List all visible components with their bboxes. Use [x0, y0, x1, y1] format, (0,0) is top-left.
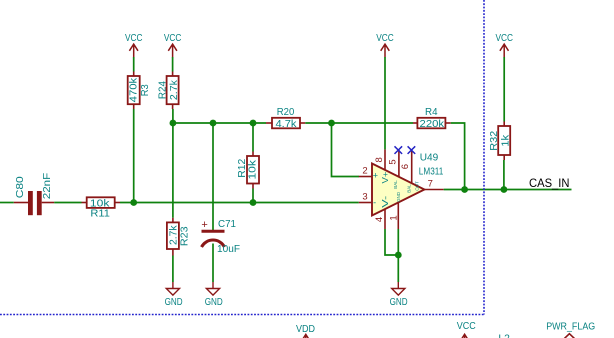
- svg-text:10k: 10k: [247, 159, 259, 179]
- resistor R11 10k (horizontal): [82, 197, 121, 219]
- resistor R23 2.7k (vertical): [167, 218, 191, 256]
- ground symbol under R23: [165, 282, 183, 308]
- svg-text:CAS_IN: CAS_IN: [529, 178, 570, 190]
- svg-text:V-: V-: [380, 196, 390, 208]
- svg-text:R11: R11: [90, 208, 110, 220]
- junction R4 feedback: [461, 186, 468, 193]
- svg-text:GND: GND: [390, 296, 408, 308]
- wire bus drop to R23: [172, 123, 174, 218]
- pin 3 (- input): [359, 192, 372, 203]
- resistor R4 220k (horizontal): [413, 106, 451, 130]
- power symbol VCC (above pin 8): [376, 32, 394, 57]
- wire C80 to R11: [54, 202, 81, 204]
- wire pin 1 to GND: [397, 229, 399, 282]
- resistor R12 10k (vertical): [236, 152, 259, 189]
- wire bus right segment: [305, 122, 413, 124]
- power flag PWR_FLAG (bottom): [546, 321, 595, 338]
- wire input left edge: [0, 202, 14, 204]
- pin 8 (V+): [374, 149, 385, 170]
- svg-text:8: 8: [374, 157, 385, 162]
- svg-text:PWR_FLAG: PWR_FLAG: [546, 321, 595, 333]
- pin 5 (BAL): [387, 150, 399, 177]
- resistor R3 470k (vertical): [127, 72, 150, 110]
- wire R24 to bus: [172, 109, 174, 123]
- resistor R24 2.7k (vertical): [157, 72, 180, 110]
- svg-text:R3: R3: [139, 84, 151, 96]
- svg-text:BAL: BAL: [407, 184, 412, 193]
- junction R32: [501, 186, 508, 193]
- svg-text:6: 6: [400, 164, 411, 169]
- capacitor C80 22nF: [14, 173, 54, 215]
- svg-text:1k: 1k: [500, 134, 512, 147]
- svg-text:OUT: OUT: [415, 181, 420, 191]
- svg-text:3: 3: [362, 192, 367, 203]
- svg-text:V+: V+: [380, 171, 390, 183]
- junction R12 on input net: [250, 199, 257, 206]
- ground symbol under op-amp: [390, 282, 408, 308]
- svg-text:BAL: BAL: [393, 180, 398, 189]
- svg-text:5: 5: [387, 159, 398, 164]
- wire VCC to R24: [172, 57, 174, 72]
- svg-text:VCC: VCC: [164, 32, 182, 44]
- svg-text:7: 7: [428, 178, 433, 189]
- junction at C71 drop: [210, 120, 217, 127]
- junction pin1/pin4: [395, 252, 402, 259]
- svg-text:+: +: [201, 219, 207, 231]
- power symbol VCC (bottom): [457, 320, 476, 338]
- capacitor C71 10uF (polarized): [201, 218, 240, 255]
- svg-text:C80: C80: [14, 176, 26, 198]
- wire R23 to GND: [172, 256, 174, 283]
- dashed boundary vertical: [483, 0, 485, 315]
- resistor R20 4.7k (horizontal): [266, 106, 305, 130]
- wire VCC to R3: [133, 57, 135, 72]
- junction R3 on input net: [130, 199, 137, 206]
- svg-text:+: +: [373, 170, 378, 180]
- power symbol VCC (above R32): [495, 32, 513, 57]
- wire bus drop to R12: [252, 123, 254, 152]
- svg-text:GND: GND: [396, 191, 401, 202]
- resistor R32 1k (vertical): [488, 122, 511, 161]
- svg-text:L2: L2: [498, 333, 510, 338]
- wire bus drop to C71: [212, 123, 214, 231]
- wire main input net: [120, 202, 359, 204]
- svg-text:10uF: 10uF: [217, 243, 240, 255]
- wire pin 4 to junction: [385, 229, 398, 255]
- wire VCC to R32: [503, 57, 505, 122]
- svg-text:VCC: VCC: [376, 32, 394, 44]
- wire R3 to lower net: [133, 109, 135, 203]
- svg-text:U49: U49: [420, 152, 439, 164]
- svg-text:-: -: [373, 197, 376, 207]
- pin 1 (GND): [388, 202, 399, 229]
- power symbol VCC (top, above R3): [125, 32, 143, 57]
- svg-text:LM311: LM311: [419, 166, 444, 178]
- svg-text:R32: R32: [488, 131, 500, 151]
- svg-text:4.7k: 4.7k: [276, 118, 298, 130]
- dashed boundary horizontal: [0, 314, 484, 316]
- svg-text:22nF: 22nF: [41, 173, 53, 200]
- svg-text:R23: R23: [179, 226, 191, 246]
- svg-text:C71: C71: [218, 218, 236, 230]
- pin 7 (output): [424, 178, 443, 189]
- no-connect X on pin 6: [408, 146, 416, 154]
- wire bus to op-amp pin 2: [332, 123, 360, 177]
- power symbol VCC (top, above R24): [164, 32, 182, 57]
- svg-text:VCC: VCC: [495, 32, 513, 44]
- svg-text:470k: 470k: [127, 77, 139, 102]
- wire VCC to pin 8: [384, 57, 386, 149]
- svg-text:2.7k: 2.7k: [168, 79, 180, 100]
- wire R4 to output: [451, 123, 465, 190]
- svg-text:VDD: VDD: [296, 323, 315, 335]
- wire output net: [444, 189, 572, 191]
- svg-text:VCC: VCC: [457, 320, 476, 332]
- no-connect X on pin 5: [395, 146, 403, 154]
- ground symbol under C71: [205, 282, 223, 308]
- svg-text:4: 4: [374, 217, 385, 222]
- svg-text:GND: GND: [165, 296, 183, 308]
- pin 2 (+ input): [359, 165, 372, 176]
- svg-text:R4: R4: [425, 106, 438, 118]
- svg-text:2.7k: 2.7k: [167, 225, 179, 245]
- svg-text:1: 1: [388, 215, 399, 220]
- wire C71 to GND: [212, 244, 214, 283]
- svg-text:R20: R20: [277, 106, 295, 118]
- svg-text:VCC: VCC: [125, 32, 143, 44]
- svg-text:R24: R24: [157, 81, 169, 99]
- svg-text:2: 2: [362, 165, 367, 176]
- op-amp U49 LM311 body: [372, 152, 443, 216]
- power symbol VDD (bottom): [296, 323, 315, 338]
- junction at pin2 drop: [328, 120, 335, 127]
- svg-text:220k: 220k: [420, 118, 445, 130]
- junction at R24/bus: [170, 120, 177, 127]
- wire R12 to input net: [252, 189, 254, 203]
- svg-text:GND: GND: [205, 296, 223, 308]
- wire bus left segment: [173, 122, 266, 124]
- pin 4 (V-): [374, 209, 385, 229]
- pin 6 (BAL): [400, 150, 412, 184]
- junction at R12 drop: [250, 120, 257, 127]
- wire R32 to output: [503, 160, 505, 190]
